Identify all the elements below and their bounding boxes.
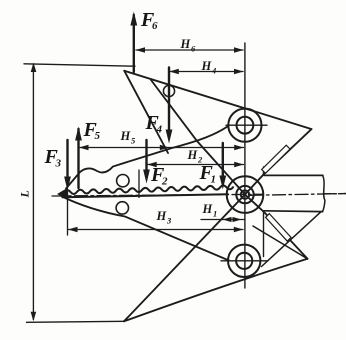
svg-text:6: 6 [152, 20, 158, 32]
svg-text:4: 4 [211, 66, 216, 76]
svg-text:3: 3 [55, 158, 62, 170]
svg-text:H: H [187, 148, 199, 162]
svg-text:H: H [120, 129, 132, 143]
svg-text:6: 6 [191, 44, 196, 54]
svg-text:2: 2 [161, 176, 168, 188]
svg-text:5: 5 [95, 130, 101, 142]
svg-text:5: 5 [131, 136, 136, 146]
svg-text:4: 4 [156, 124, 163, 136]
svg-text:H: H [201, 59, 213, 73]
svg-text:H: H [202, 202, 214, 216]
svg-text:1: 1 [211, 174, 217, 186]
svg-text:H: H [180, 37, 192, 51]
svg-text:1: 1 [213, 209, 217, 219]
svg-text:3: 3 [166, 216, 172, 226]
svg-text:L: L [18, 190, 32, 198]
svg-text:H: H [156, 209, 168, 223]
